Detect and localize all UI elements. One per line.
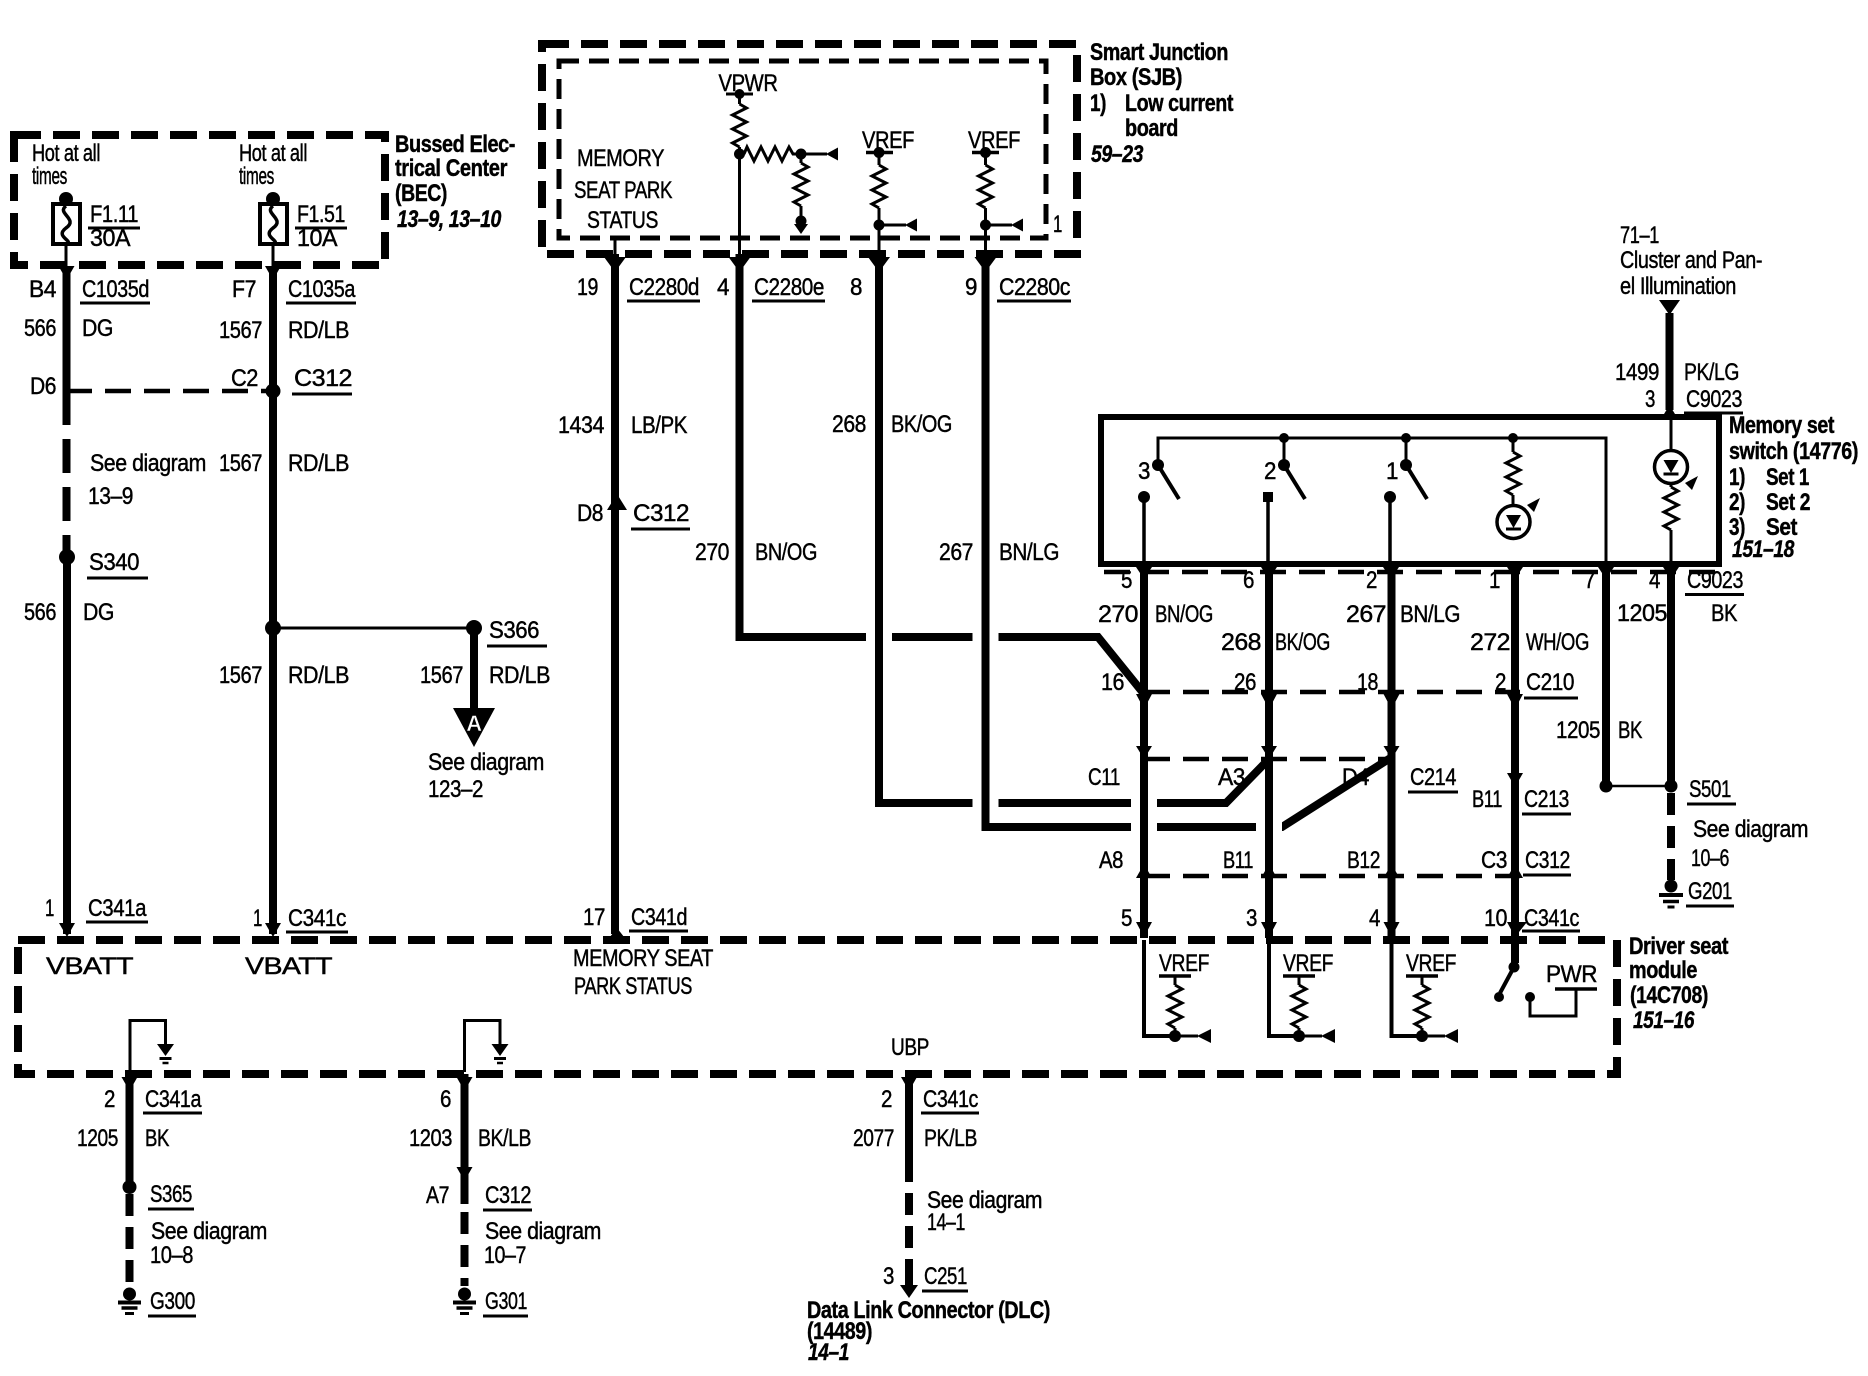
Bussed Electrical Center (BEC) box <box>14 135 385 265</box>
svg-text:10–6: 10–6 <box>1691 845 1729 872</box>
svg-text:See diagram: See diagram <box>1693 816 1808 843</box>
svg-text:71–1: 71–1 <box>1620 222 1659 249</box>
svg-text:30A: 30A <box>90 225 130 252</box>
svg-text:18: 18 <box>1357 669 1378 696</box>
svg-text:2: 2 <box>1366 567 1377 594</box>
svg-text:C1035a: C1035a <box>288 276 356 303</box>
svg-text:C214: C214 <box>1410 764 1456 791</box>
VREF resistor 2 (module pin 3) <box>1269 940 1299 1036</box>
resistor (VREF pin 8) <box>878 153 881 166</box>
svg-text:5: 5 <box>1121 567 1132 594</box>
illumination lamp with resistor <box>1670 417 1673 451</box>
svg-text:1205: 1205 <box>1617 600 1667 627</box>
SJB low current board inner box <box>559 61 1046 238</box>
svg-text:2): 2) <box>1729 489 1745 516</box>
svg-text:PWR: PWR <box>1546 961 1597 988</box>
svg-text:WH/OG: WH/OG <box>1526 629 1589 656</box>
svg-text:VREF: VREF <box>862 127 914 154</box>
svg-text:Driver seat: Driver seat <box>1629 933 1728 960</box>
wire 1567 RD/LB (fuse F1.51 to VBATT) <box>265 266 281 280</box>
connector C251 pin 3 <box>905 1262 913 1285</box>
svg-text:10–7: 10–7 <box>484 1242 526 1269</box>
svg-text:BK/OG: BK/OG <box>1275 629 1330 656</box>
svg-text:C9023: C9023 <box>1686 386 1742 413</box>
svg-text:267: 267 <box>1346 601 1386 628</box>
svg-text:6: 6 <box>440 1086 451 1113</box>
wire 1203 BK/LB (module pin 6 to G301) <box>457 1077 473 1091</box>
svg-text:DG: DG <box>82 315 113 342</box>
svg-text:Set 2: Set 2 <box>1766 489 1810 516</box>
ground G300 <box>123 1288 136 1301</box>
connector C210 row <box>1144 690 1520 695</box>
wire 1205 BK column (switch pin 7 to S501) <box>1602 564 1610 786</box>
svg-text:G301: G301 <box>485 1288 527 1315</box>
wire 1205 BK (module pin 2 to G300) <box>122 1077 138 1091</box>
internal resistor to ground arrow <box>800 154 803 163</box>
svg-text:C9023: C9023 <box>1687 567 1743 594</box>
fuse F1.11 30A <box>59 192 73 206</box>
wire 566 DG lower solid segment <box>63 557 71 934</box>
svg-text:151–16: 151–16 <box>1633 1007 1695 1034</box>
svg-text:G201: G201 <box>1688 878 1732 905</box>
svg-text:Low current: Low current <box>1125 90 1233 117</box>
svg-text:Memory set: Memory set <box>1729 412 1834 439</box>
connector C214 row <box>1144 757 1392 762</box>
svg-text:1567: 1567 <box>420 662 463 689</box>
svg-text:See diagram: See diagram <box>151 1218 267 1245</box>
svg-text:See diagram: See diagram <box>485 1218 601 1245</box>
svg-text:BK: BK <box>1711 600 1737 627</box>
svg-text:4: 4 <box>1649 567 1660 594</box>
wire 270 BN/OG column (switch pin 5 to module pin 5) <box>1140 564 1148 938</box>
module internal ground 1 <box>130 1021 166 1073</box>
wire 272 WH/OG column (switch pin 1 to module pin 10) <box>1511 564 1519 938</box>
svg-text:Bussed Elec-: Bussed Elec- <box>395 131 515 158</box>
svg-text:59–23: 59–23 <box>1091 141 1144 168</box>
svg-text:MEMORY: MEMORY <box>577 145 664 172</box>
svg-text:S365: S365 <box>150 1181 192 1208</box>
svg-text:1567: 1567 <box>219 662 262 689</box>
Smart Junction Box (SJB) outer box <box>542 44 1077 254</box>
svg-text:123–2: 123–2 <box>428 776 483 803</box>
svg-text:270: 270 <box>1098 601 1138 628</box>
ground G201 <box>1665 880 1678 893</box>
svg-text:3: 3 <box>1138 458 1150 485</box>
svg-text:3: 3 <box>1246 905 1257 932</box>
svg-text:7: 7 <box>1584 567 1595 594</box>
resistor (VPWR pull) <box>733 104 747 147</box>
connector C312 row (right) <box>1144 874 1520 879</box>
svg-text:C210: C210 <box>1526 669 1574 696</box>
svg-text:C341c: C341c <box>923 1086 978 1113</box>
svg-text:UBP: UBP <box>891 1034 929 1061</box>
svg-text:566: 566 <box>24 599 56 626</box>
svg-text:A7: A7 <box>426 1182 449 1209</box>
svg-text:BN/OG: BN/OG <box>755 539 817 566</box>
svg-text:(14C708): (14C708) <box>1630 982 1708 1009</box>
wire 1205 BK column (switch pin 4 to S501/G201) <box>1667 564 1675 786</box>
module internal switch (pin 10) <box>1511 940 1519 963</box>
svg-text:9: 9 <box>965 274 977 301</box>
svg-text:1203: 1203 <box>409 1125 452 1152</box>
connector C312 crossing D8 <box>607 494 627 510</box>
svg-text:el Illumination: el Illumination <box>1620 273 1736 300</box>
splice S365 <box>123 1180 137 1194</box>
svg-text:A3: A3 <box>1218 764 1245 791</box>
svg-text:1: 1 <box>1489 567 1500 594</box>
svg-text:trical Center: trical Center <box>395 155 507 182</box>
svg-text:2: 2 <box>1495 669 1506 696</box>
svg-text:Cluster and Pan-: Cluster and Pan- <box>1620 247 1762 274</box>
svg-text:A8: A8 <box>1099 847 1123 874</box>
connector C213 crossing B11 <box>1507 773 1523 787</box>
lamp with resistor (set indicator) <box>1512 438 1515 452</box>
svg-text:C1035d: C1035d <box>82 276 149 303</box>
svg-text:D6: D6 <box>30 373 56 400</box>
svg-text:VREF: VREF <box>1406 950 1456 977</box>
svg-text:See diagram: See diagram <box>90 450 206 477</box>
svg-text:times: times <box>32 163 67 190</box>
svg-text:module: module <box>1629 957 1697 984</box>
svg-text:C341d: C341d <box>631 904 687 931</box>
svg-text:RD/LB: RD/LB <box>288 317 349 344</box>
wire pin 19 stub inside SJB <box>614 236 617 254</box>
svg-text:B11: B11 <box>1472 786 1502 813</box>
svg-text:RD/LB: RD/LB <box>489 662 550 689</box>
svg-text:10: 10 <box>1484 905 1507 932</box>
wire VPWR to pin 4 <box>738 154 741 254</box>
svg-text:C312: C312 <box>485 1182 531 1209</box>
svg-text:BK: BK <box>1618 717 1642 744</box>
svg-text:VBATT: VBATT <box>245 953 333 980</box>
svg-text:C312: C312 <box>633 500 689 527</box>
svg-text:2: 2 <box>1264 458 1276 485</box>
svg-text:268: 268 <box>1221 629 1261 656</box>
svg-text:VREF: VREF <box>1283 950 1333 977</box>
connector C9023 row <box>1104 570 1716 575</box>
splice S340 <box>59 549 75 565</box>
svg-text:BK/LB: BK/LB <box>478 1125 531 1152</box>
svg-text:13–9: 13–9 <box>88 483 133 510</box>
svg-text:6: 6 <box>1243 567 1254 594</box>
splice S501 <box>1600 780 1613 793</box>
svg-text:268: 268 <box>832 411 866 438</box>
fuse F1.51 10A <box>266 192 280 206</box>
svg-text:S501: S501 <box>1689 776 1731 803</box>
svg-text:5: 5 <box>1121 905 1132 932</box>
svg-text:board: board <box>1125 115 1178 142</box>
svg-text:F7: F7 <box>232 276 256 303</box>
svg-text:2: 2 <box>881 1086 892 1113</box>
wire 270 column crossing gap over wire 267 elbow <box>1131 819 1157 835</box>
svg-text:STATUS: STATUS <box>587 207 658 234</box>
svg-text:270: 270 <box>695 539 729 566</box>
svg-text:B11: B11 <box>1223 847 1253 874</box>
svg-text:PARK STATUS: PARK STATUS <box>574 973 692 1000</box>
svg-text:RD/LB: RD/LB <box>288 662 349 689</box>
wire 566 DG dashed segment <box>63 391 71 552</box>
wire 270 column crossing gap over wire 268 elbow <box>1131 795 1157 811</box>
svg-text:PK/LB: PK/LB <box>924 1125 977 1152</box>
svg-text:MEMORY SEAT: MEMORY SEAT <box>573 945 714 972</box>
svg-text:See diagram: See diagram <box>428 749 544 776</box>
wire 267 BN/LG (VREF pin 9, elbow to column C214 pin D4) <box>975 257 997 272</box>
internal continuation arrow <box>801 153 827 156</box>
svg-text:Smart Junction: Smart Junction <box>1090 39 1228 66</box>
svg-text:PK/LG: PK/LG <box>1684 359 1739 386</box>
svg-text:Set 1: Set 1 <box>1766 464 1809 491</box>
svg-text:1205: 1205 <box>77 1125 118 1152</box>
svg-text:1): 1) <box>1729 464 1745 491</box>
svg-text:C341c: C341c <box>1524 905 1579 932</box>
svg-text:B12: B12 <box>1347 847 1380 874</box>
svg-text:3: 3 <box>883 1263 894 1290</box>
svg-text:BK: BK <box>145 1125 169 1152</box>
svg-text:DG: DG <box>83 599 114 626</box>
svg-text:14–1: 14–1 <box>927 1209 965 1236</box>
splice S366 junction <box>265 620 281 636</box>
svg-text:1: 1 <box>1386 458 1398 485</box>
svg-text:BN/LG: BN/LG <box>1400 601 1460 628</box>
svg-text:C2: C2 <box>231 365 258 392</box>
wire 267 BN/LG crossing gap over wire 268 elbow <box>973 795 999 811</box>
svg-text:BN/LG: BN/LG <box>999 539 1059 566</box>
svg-text:1: 1 <box>253 905 262 932</box>
svg-text:4: 4 <box>1369 905 1380 932</box>
svg-text:19: 19 <box>577 274 598 301</box>
svg-text:566: 566 <box>24 315 56 342</box>
svg-text:VBATT: VBATT <box>46 953 134 980</box>
svg-text:17: 17 <box>583 904 605 931</box>
svg-text:26: 26 <box>1234 669 1256 696</box>
svg-text:(BEC): (BEC) <box>395 180 447 207</box>
wire 268 BK/OG crossing gap over wire 270 elbow <box>866 629 892 645</box>
svg-text:272: 272 <box>1470 629 1510 656</box>
VREF resistor 3 (module pin 4) <box>1392 940 1423 1036</box>
svg-text:2: 2 <box>104 1086 115 1113</box>
svg-text:8: 8 <box>850 274 862 301</box>
VREF resistor 1 (module pin 5) <box>1144 940 1175 1036</box>
svg-text:1499: 1499 <box>1615 359 1659 386</box>
wire 268 column crossing gap over wire 267 elbow <box>1256 819 1282 835</box>
resistor (horizontal internal) <box>744 147 801 161</box>
svg-text:D8: D8 <box>577 500 603 527</box>
switch internal bus wire <box>1158 438 1606 564</box>
wire 1499 PK/LG from cluster <box>1659 300 1680 315</box>
svg-text:RD/LB: RD/LB <box>288 450 349 477</box>
svg-text:S366: S366 <box>489 617 539 644</box>
svg-text:267: 267 <box>939 539 973 566</box>
svg-text:G300: G300 <box>150 1288 195 1315</box>
svg-text:151–18: 151–18 <box>1732 536 1795 563</box>
svg-text:BK/OG: BK/OG <box>891 411 952 438</box>
connector C341c row labels <box>1136 922 1152 937</box>
svg-text:BN/OG: BN/OG <box>1155 601 1213 628</box>
svg-text:switch (14776): switch (14776) <box>1729 438 1858 465</box>
svg-text:VREF: VREF <box>968 127 1020 154</box>
svg-text:D4: D4 <box>1342 764 1369 791</box>
svg-text:2077: 2077 <box>853 1125 894 1152</box>
svg-text:C341c: C341c <box>288 905 346 932</box>
svg-text:C213: C213 <box>1524 786 1569 813</box>
wire 1434 LB/PK (pin 19 to C341d) <box>604 257 626 272</box>
svg-text:1434: 1434 <box>558 412 604 439</box>
svg-text:1: 1 <box>45 895 54 922</box>
svg-text:1567: 1567 <box>219 450 262 477</box>
ground G301 <box>458 1288 471 1301</box>
wire 2077 PK/LB (module UBP to DLC) <box>901 1077 917 1091</box>
svg-text:10A: 10A <box>297 225 337 252</box>
svg-text:C312: C312 <box>1525 847 1570 874</box>
svg-text:C341a: C341a <box>88 895 147 922</box>
svg-text:1567: 1567 <box>219 317 262 344</box>
wire 268 BK/OG (VREF pin 8, elbow to column C214 pin A3) <box>868 257 890 272</box>
resistor (VREF pin 9) <box>984 153 987 166</box>
branch wire 1567 RD/LB to A <box>470 628 478 709</box>
svg-text:14–1: 14–1 <box>808 1339 849 1366</box>
memory set switch (14776) box <box>1101 417 1719 564</box>
svg-text:C11: C11 <box>1088 764 1120 791</box>
connector C312 crossing A7 <box>457 1167 473 1181</box>
off-page arrow A <box>453 708 495 747</box>
connector C341d pin 17 <box>606 928 628 942</box>
svg-text:B4: B4 <box>29 276 56 303</box>
svg-text:C3: C3 <box>1481 847 1507 874</box>
svg-text:C2280e: C2280e <box>754 274 824 301</box>
wire 566 DG (fuse F1.11 to VBATT) upper solid segment <box>59 266 75 280</box>
svg-text:SEAT PARK: SEAT PARK <box>574 177 672 204</box>
wire 267 BN/LG column (switch pin 2 to module pin 4) <box>1388 564 1396 938</box>
svg-text:3: 3 <box>1645 386 1655 413</box>
svg-text:F1.51: F1.51 <box>297 201 345 228</box>
wire 270 BN/OG (VPWR pin 4, elbow to column C210 pin 16) <box>729 257 751 272</box>
svg-text:VREF: VREF <box>1159 950 1209 977</box>
svg-text:A: A <box>466 711 482 736</box>
svg-text:C2280c: C2280c <box>999 274 1070 301</box>
svg-text:13–9, 13–10: 13–9, 13–10 <box>397 206 502 233</box>
wire 1205 BK dashed to ground <box>1667 793 1675 880</box>
svg-text:F1.11: F1.11 <box>90 201 138 228</box>
svg-text:1: 1 <box>1053 211 1062 238</box>
svg-text:Box (SJB): Box (SJB) <box>1090 64 1182 91</box>
svg-text:C251: C251 <box>924 1263 967 1290</box>
svg-text:C341a: C341a <box>145 1086 202 1113</box>
driver seat module (14C708) box <box>18 940 1617 1074</box>
wire 268 BK/OG column (switch pin 6 to module pin 3) <box>1265 564 1273 938</box>
svg-text:10–8: 10–8 <box>150 1242 193 1269</box>
svg-text:LB/PK: LB/PK <box>631 412 687 439</box>
svg-text:C312: C312 <box>294 365 352 392</box>
svg-text:1): 1) <box>1090 90 1106 117</box>
svg-text:C2280d: C2280d <box>629 274 699 301</box>
module internal ground 2 <box>465 1021 501 1073</box>
svg-text:16: 16 <box>1101 669 1124 696</box>
svg-text:S340: S340 <box>89 549 139 576</box>
svg-text:4: 4 <box>717 274 729 301</box>
svg-text:1205: 1205 <box>1556 717 1600 744</box>
svg-text:times: times <box>239 163 274 190</box>
wire 267 BN/LG crossing gap over wire 270 elbow <box>973 629 999 645</box>
